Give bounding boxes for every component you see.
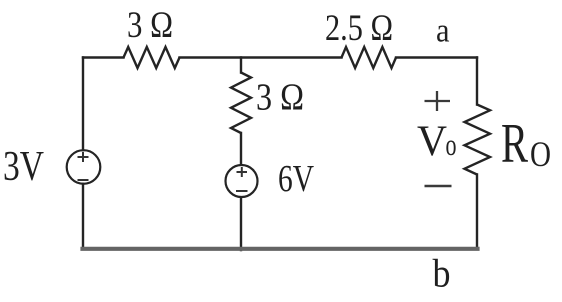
V2 polarity plus [237,167,248,177]
svg-text:b: b [433,251,451,296]
resistor RO right vertical [465,105,491,175]
wire: bottom horizontal [83,247,478,251]
voltage source V1 (3V) circle [67,150,101,184]
Vo minus sign [425,185,452,188]
wire: right branch [476,58,478,250]
wire: middle branch [240,58,242,251]
V2 polarity minus [236,190,248,192]
svg-text:3V: 3V [3,144,44,190]
svg-text:O: O [530,134,551,174]
V1 polarity minus [78,179,89,181]
resistor R2 2.5ohm top-right [342,47,397,68]
svg-text:V: V [417,118,447,165]
resistor R3 3ohm middle vertical [231,73,251,134]
svg-text:2.5 Ω: 2.5 Ω [325,8,393,49]
wire: top horizontal (node between sources and a) [83,56,477,58]
resistor R1 3ohm top-left [124,47,180,68]
svg-text:R: R [501,113,528,175]
svg-text:o: o [446,127,457,162]
svg-text:3 Ω: 3 Ω [127,5,173,46]
V1 polarity plus [78,152,89,162]
svg-text:a: a [436,13,450,50]
voltage source V2 (6V) circle [226,165,258,197]
svg-text:6V: 6V [278,158,314,200]
svg-text:3 Ω: 3 Ω [256,77,304,119]
Vo plus sign [425,91,451,111]
wire: left branch [82,58,84,250]
